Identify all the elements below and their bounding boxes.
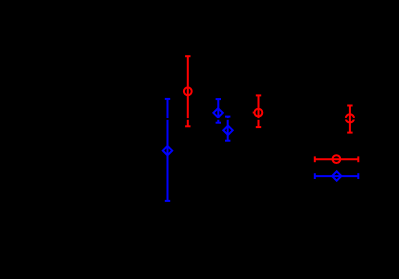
P1 top cap	[185, 55, 190, 57]
P6 bottom cap	[347, 132, 352, 134]
P3 top cap	[216, 98, 221, 100]
wire: P4 error bar vertical line	[227, 117, 229, 141]
blue sample diamond marker	[332, 171, 341, 180]
P5 top cap	[256, 94, 261, 96]
P4 top cap	[225, 116, 230, 118]
P4 bottom cap	[225, 140, 230, 142]
data point P6: red circle with y error bar at x=349.9	[344, 106, 357, 133]
P4 diamond marker	[223, 126, 232, 135]
wire: P2 error bar vertical line	[167, 99, 169, 201]
P2 bottom cap	[165, 200, 170, 202]
wire: blue sample horizontal line	[315, 175, 359, 177]
P1 circle marker	[184, 87, 192, 95]
P2 diamond marker	[163, 146, 172, 155]
P5 bottom cap	[256, 126, 261, 128]
P1 bottom cap	[185, 125, 190, 127]
wire: red sample horizontal line	[315, 158, 359, 160]
data point P2: blue diamond with y error bar at x=167.3	[163, 99, 172, 201]
wire: P3 error bar vertical line	[217, 99, 219, 123]
stray red notch left of P5 circle	[253, 112, 254, 114]
red sample right cap	[357, 156, 359, 162]
black occluding line crossing the plot at y=119	[0, 118, 340, 120]
P2 top cap	[165, 98, 170, 100]
wire: P6 error bar vertical line	[349, 106, 351, 133]
blue sample right cap	[357, 173, 359, 179]
P3 bottom cap	[216, 122, 221, 124]
wire: P5 error bar vertical line	[258, 95, 260, 127]
legend sample 1: red horizontal bar with end caps and circle marker	[315, 155, 359, 163]
data point P4: blue diamond with y error bar at x=227.7	[223, 117, 232, 141]
P6 circle marker	[346, 114, 354, 122]
data point P5: red circle with y error bar at x=258.5	[253, 95, 263, 127]
P5 circle marker	[255, 109, 263, 117]
blue sample left cap	[314, 173, 316, 179]
wire: P1 error bar vertical line	[187, 56, 189, 126]
P3 diamond marker	[213, 108, 222, 117]
data point P3: blue diamond with y error bar at x=218.3	[213, 99, 222, 123]
legend sample 2: blue horizontal bar with end caps and diamond marker	[315, 171, 359, 180]
black occluding band over P6 circle sides	[344, 118, 357, 120]
P6 top cap	[347, 105, 352, 107]
red sample circle marker	[333, 155, 341, 163]
red sample left cap	[314, 156, 316, 162]
data point P1: red circle with y error bar at x=187.8	[184, 56, 192, 126]
